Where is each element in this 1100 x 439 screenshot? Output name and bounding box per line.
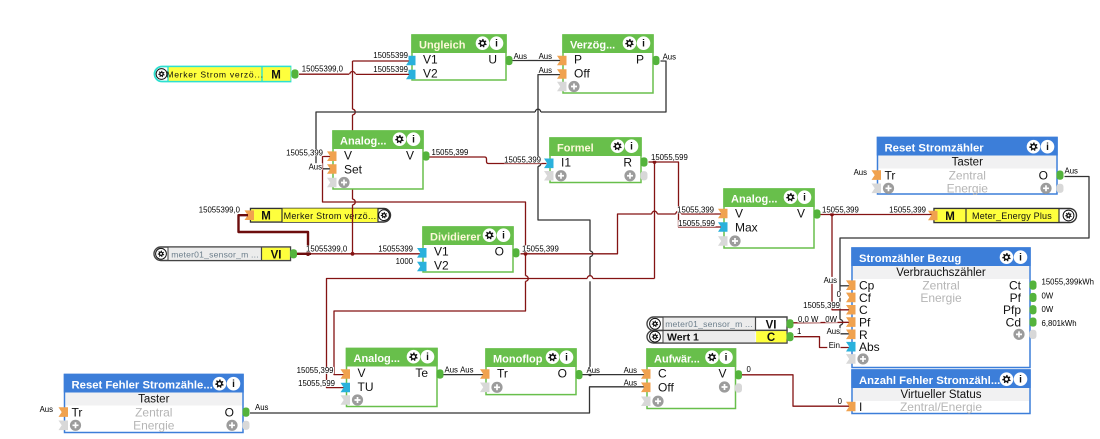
svg-text:Aus: Aus <box>624 366 638 375</box>
wire branch VI to Merker M sink <box>239 215 309 254</box>
value label 0W at Pfp out <box>1041 306 1053 313</box>
wire Verzoegerung P to AnalogSpeicher Set <box>541 61 666 112</box>
svg-text:0: 0 <box>747 365 752 374</box>
value label Aus at Stromzaehler Cp in <box>823 277 837 284</box>
svg-text:i: i <box>642 39 645 50</box>
svg-text:Wert 1: Wert 1 <box>667 332 699 344</box>
svg-text:VI: VI <box>766 319 777 331</box>
svg-text:Meter_Energy Plus: Meter_Energy Plus <box>972 211 1052 221</box>
svg-text:i: i <box>630 142 633 153</box>
value label 15055,399 at Dividierer O out <box>522 245 559 252</box>
svg-text:Tr: Tr <box>497 366 508 380</box>
svg-text:0: 0 <box>837 290 842 299</box>
svg-text:Tr: Tr <box>72 406 83 420</box>
function block Stromzaehler Bezug (Verbrauchszaehler) <box>846 247 1037 367</box>
wire Formel R to Analog Max <box>655 162 722 227</box>
svg-text:Analog...: Analog... <box>340 136 386 148</box>
svg-text:Abs: Abs <box>859 340 880 354</box>
svg-text:i: i <box>426 352 429 363</box>
wire Dividierer O down-left to Analog3 V <box>525 254 527 276</box>
svg-text:15055,399: 15055,399 <box>504 156 541 165</box>
svg-text:Aus: Aus <box>460 366 474 375</box>
memory-flag capsule MerkerStromVerzoegert (source) <box>155 67 291 82</box>
svg-text:0: 0 <box>838 397 843 406</box>
value label 15055,599 at Formel R out <box>651 154 688 161</box>
svg-text:U: U <box>488 52 497 66</box>
value label Aus at Verzoegerung P out <box>662 53 676 60</box>
svg-text:15055399: 15055399 <box>373 65 408 74</box>
svg-text:Monoflop: Monoflop <box>493 354 543 366</box>
svg-text:Dividierer: Dividierer <box>430 232 481 244</box>
svg-text:Max: Max <box>735 220 758 234</box>
svg-text:V: V <box>344 148 352 162</box>
memory-flag capsule MerkerStromVerzoegert (sink) <box>251 209 391 223</box>
svg-text:Verbrauchszähler: Verbrauchszähler <box>896 267 986 279</box>
value label 15055,399 at Analog1 V out <box>431 149 468 156</box>
svg-text:15055399: 15055399 <box>373 51 408 60</box>
svg-text:15055,599: 15055,599 <box>298 379 335 388</box>
svg-text:Cd: Cd <box>1006 315 1021 329</box>
svg-text:6,801kWh: 6,801kWh <box>1042 319 1077 328</box>
svg-text:Zentral: Zentral <box>135 406 172 420</box>
value label Aus at ResetSZ O out <box>1064 167 1078 174</box>
svg-text:i: i <box>803 193 806 204</box>
value label Aus at Verzoegerung Off in <box>538 67 552 74</box>
svg-text:Reset Fehler Stromzähle...: Reset Fehler Stromzähle... <box>72 380 213 392</box>
value label 15055,399 at Meter_Energy in <box>889 206 926 213</box>
capsule C3 output nub <box>290 249 297 258</box>
value label Aus at Monoflop O out <box>586 367 600 374</box>
value label 15055,399 at Analog3 V in <box>297 367 334 374</box>
svg-text:I1: I1 <box>561 155 571 169</box>
wire MerkerM out to Ungleich V2 <box>299 73 349 75</box>
svg-text:M: M <box>271 70 281 82</box>
svg-text:i: i <box>232 379 235 390</box>
svg-text:Aus: Aus <box>539 66 553 75</box>
value label 0 at Aufwaerts V out <box>746 366 751 373</box>
wire Dividierer O right-up to AnalogSpeicher2 V <box>521 214 652 254</box>
svg-text:O: O <box>225 406 234 420</box>
svg-text:Off: Off <box>658 380 674 394</box>
svg-text:0,0 W: 0,0 W <box>798 315 819 324</box>
svg-text:15055,399: 15055,399 <box>432 148 469 157</box>
svg-text:Aus: Aus <box>663 53 677 62</box>
svg-text:Taster: Taster <box>138 394 169 406</box>
svg-text:i: i <box>1046 142 1049 153</box>
svg-text:meter01_sensor_m ...: meter01_sensor_m ... <box>171 249 259 259</box>
svg-text:i: i <box>412 135 415 146</box>
svg-text:C: C <box>767 332 775 344</box>
svg-text:0W: 0W <box>1042 305 1054 314</box>
svg-text:1: 1 <box>797 327 801 336</box>
svg-text:Zentral: Zentral <box>949 169 986 183</box>
svg-text:Set: Set <box>344 162 363 176</box>
svg-text:meter01_sensor_m ...: meter01_sensor_m ... <box>665 319 753 329</box>
wire branch down to Stromzaehler C <box>832 215 850 310</box>
svg-text:Formel: Formel <box>557 143 594 155</box>
svg-text:Taster: Taster <box>952 157 983 169</box>
svg-text:Aus: Aus <box>1065 167 1079 176</box>
value label Ein at Stromzaehler Abs in <box>827 342 840 349</box>
wire AnalogSpeicher2 V to Meter_Energy Plus <box>821 214 932 216</box>
svg-text:M: M <box>945 211 955 223</box>
memory-flag capsule Meter_Energy Plus (sink) <box>934 209 1077 223</box>
svg-text:15055399: 15055399 <box>378 245 413 254</box>
svg-text:1000: 1000 <box>396 257 414 266</box>
value label 15055399 at Ungleich V1 <box>373 52 408 59</box>
wire ResetFehler O to Aufwaertszaehler Off <box>250 387 645 413</box>
value label Aus at Ungleich U out <box>513 53 527 60</box>
virtual-input capsule meter01_sensor (right) <box>647 317 787 331</box>
function block Formel <box>544 137 648 182</box>
junction dots <box>306 252 310 256</box>
svg-text:V1: V1 <box>423 52 438 66</box>
svg-text:i: i <box>725 353 728 364</box>
svg-text:V2: V2 <box>423 66 438 80</box>
svg-text:Stromzähler Bezug: Stromzähler Bezug <box>859 253 961 265</box>
value label 15055,399kWh at Ct out <box>1041 278 1094 285</box>
svg-text:Anzahl Fehler Stromzähl...: Anzahl Fehler Stromzähl... <box>859 375 1000 387</box>
function block Analogspeicher 1 <box>327 130 430 189</box>
svg-text:V: V <box>358 366 366 380</box>
svg-text:Verzög...: Verzög... <box>570 40 615 52</box>
value label 15055,399 at Analog2 V out <box>822 206 859 213</box>
svg-text:Aus: Aus <box>514 52 528 61</box>
capsule C4 input tab <box>928 211 938 221</box>
svg-text:Aus: Aus <box>445 366 459 375</box>
constant capsule Wert 1 <box>647 331 787 344</box>
svg-text:15055,399: 15055,399 <box>889 206 926 215</box>
svg-text:Aus: Aus <box>587 366 601 375</box>
svg-text:V: V <box>735 206 743 220</box>
svg-text:M: M <box>261 211 271 223</box>
virtual-input capsule meter01_sensor (left) <box>154 247 291 261</box>
capsule C6 output nub <box>787 332 794 341</box>
value label Aus at Aufwaerts C in <box>623 367 637 374</box>
svg-text:i: i <box>1019 375 1022 386</box>
function block Analogspeicher 3 <box>341 348 444 407</box>
wire Ungleich U to Verzoegerung P <box>513 60 561 62</box>
function block Analogspeicher 2 <box>718 188 821 248</box>
svg-text:Aus: Aus <box>309 162 323 171</box>
svg-text:i: i <box>1019 253 1022 264</box>
svg-text:Aus: Aus <box>624 378 638 387</box>
svg-text:VI: VI <box>271 249 282 261</box>
svg-text:V1: V1 <box>434 244 449 258</box>
value label 1000 at Dividierer V2 <box>396 258 414 265</box>
svg-text:Energie: Energie <box>947 182 989 196</box>
value label 0W at Pf out <box>1041 292 1053 299</box>
value label Aus at ResetFehler Tr in <box>39 406 53 413</box>
svg-text:15055,599: 15055,599 <box>678 219 715 228</box>
svg-text:I: I <box>859 400 862 414</box>
svg-text:Analog...: Analog... <box>731 194 777 206</box>
svg-text:15055399,0: 15055399,0 <box>199 206 241 215</box>
value label 15055,399 at Formel I1 in <box>504 156 541 163</box>
function block Ungleich <box>406 34 513 80</box>
value label 0W at Stromzaehler Pf in <box>825 316 837 323</box>
svg-text:C: C <box>658 366 667 380</box>
svg-text:O: O <box>558 366 567 380</box>
value label 15055,399 at Stromzaehler C in <box>803 302 840 309</box>
value label Aus at ResetSZ Tr in <box>853 169 867 176</box>
svg-text:Reset Stromzähler: Reset Stromzähler <box>885 143 985 155</box>
value label 0,0 W at VI2 out <box>798 316 821 323</box>
svg-text:i: i <box>565 353 568 364</box>
svg-text:V: V <box>718 366 726 380</box>
svg-text:Tr: Tr <box>885 169 896 183</box>
svg-text:15055,399: 15055,399 <box>522 245 559 254</box>
wire Formel R down-left to Analog TU <box>649 161 655 163</box>
svg-text:Off: Off <box>574 66 590 80</box>
svg-text:15055399,0: 15055399,0 <box>306 245 348 254</box>
value label 1 at Wert1 C out <box>797 328 802 335</box>
value label 15055,599 at Analog3 TU in <box>298 380 335 387</box>
value label 15055399,0 at Merker out <box>302 65 344 72</box>
svg-text:15055399,0: 15055399,0 <box>302 65 344 74</box>
svg-text:15055,399: 15055,399 <box>297 366 334 375</box>
value label Aus at Monoflop Tr in <box>460 366 474 373</box>
value label 15055,399 at Analog2 V in <box>677 206 714 213</box>
wire Wert1 C to Stromzaehler Abs <box>794 337 850 348</box>
wire Monoflop O to Aufwaertszaehler C <box>583 374 645 376</box>
svg-text:V: V <box>797 206 805 220</box>
function block Reset Stromzaehler (Taster) <box>872 137 1064 196</box>
function block Reset Fehler Stromzaehler (Taster) <box>59 374 250 433</box>
value label Aus at Analog3 Te out <box>444 366 458 373</box>
svg-text:Zentral/Energie: Zentral/Energie <box>900 400 982 414</box>
capsule C2 input tab <box>245 210 255 220</box>
value label Aus at Verzoegerung P in <box>538 53 552 60</box>
value label 15055399,0 at Merker2 in <box>199 206 241 213</box>
function block Dividierer <box>417 226 520 272</box>
svg-text:i: i <box>502 231 505 242</box>
wire AnalogSpeicher V to Formel I1 <box>430 157 547 164</box>
svg-text:Aus: Aus <box>824 276 838 285</box>
wire VI2 meter01 out to Stromzaehler Pf <box>794 321 850 324</box>
capsule C5 output nub <box>787 319 794 328</box>
svg-text:O: O <box>1039 169 1048 183</box>
svg-text:Energie: Energie <box>133 419 175 433</box>
svg-text:Ungleich: Ungleich <box>419 40 466 52</box>
svg-text:P: P <box>574 52 582 66</box>
wire Dividierer O up-left to AnalogSpeicher1 V <box>323 157 526 254</box>
value label Aus at Analog1 Set in <box>308 163 322 170</box>
wire branch VI up to Ungleich V1 <box>352 205 354 254</box>
svg-text:15055,399: 15055,399 <box>286 148 323 157</box>
svg-text:V2: V2 <box>434 258 449 272</box>
svg-text:Te: Te <box>415 366 428 380</box>
value label 0 at Stromzaehler Cf in <box>836 291 841 298</box>
value label Aus at ResetFehler O out <box>255 404 269 411</box>
function block Monoflop <box>480 348 583 394</box>
svg-text:Analog...: Analog... <box>354 353 400 365</box>
svg-text:Ein: Ein <box>829 341 840 350</box>
svg-text:O: O <box>495 244 504 258</box>
function block Verzoegerung <box>557 34 660 93</box>
value label Aus at Aufwaerts Off in <box>623 379 637 386</box>
svg-text:R: R <box>623 155 632 169</box>
svg-text:15055,399: 15055,399 <box>803 301 840 310</box>
svg-text:P: P <box>636 52 644 66</box>
svg-text:Merker Strom verzö...: Merker Strom verzö... <box>166 70 263 80</box>
svg-text:Aus: Aus <box>827 327 841 336</box>
svg-text:15055,399: 15055,399 <box>822 206 859 215</box>
svg-text:Energie: Energie <box>920 291 962 305</box>
wire ResetStromzaehler O to Stromzaehler Cp and R <box>840 177 1089 320</box>
value label 15055399,0 at VI out <box>306 245 348 252</box>
svg-text:i: i <box>495 39 498 50</box>
value label 0 at AnzahlFehler I in <box>837 398 842 405</box>
svg-text:TU: TU <box>358 380 374 394</box>
svg-text:Aus: Aus <box>854 168 868 177</box>
svg-text:0W: 0W <box>825 315 837 324</box>
svg-text:Aus: Aus <box>539 52 553 61</box>
wire Analog3 Te to Monoflop Tr <box>444 374 484 376</box>
svg-text:Aus: Aus <box>40 405 54 414</box>
value label 6,801kWh at Cd out <box>1041 320 1076 327</box>
function block Anzahl Fehler Stromzaehler (Virtueller Status) <box>846 369 1031 414</box>
value label 15055,599 at Analog2 Max in <box>678 220 715 227</box>
capsule C1 output nub <box>292 69 299 78</box>
svg-text:0W: 0W <box>1042 291 1054 300</box>
function block Aufwaertszaehler <box>641 348 742 408</box>
wire branch Monoflop O up to Verzoegerung Off <box>589 281 591 374</box>
svg-text:Aus: Aus <box>255 403 269 412</box>
svg-text:15055,399kWh: 15055,399kWh <box>1042 278 1094 287</box>
svg-text:V: V <box>406 148 414 162</box>
value label 15055399 at Ungleich V2 <box>373 66 408 73</box>
svg-text:Aufwär...: Aufwär... <box>654 354 700 366</box>
svg-text:Merker Strom verzö...: Merker Strom verzö... <box>284 211 377 221</box>
value label Aus at Stromzaehler R in <box>826 328 840 335</box>
svg-text:15055,399: 15055,399 <box>677 206 714 215</box>
value label 15055,399 at Analog1 V in <box>286 149 323 156</box>
svg-text:15055,599: 15055,599 <box>651 153 688 162</box>
value label 15055399 at Dividierer V1 in <box>378 245 413 252</box>
wire VI meter01 out to Dividierer V1 <box>297 253 420 255</box>
wire Aufwaertszaehler V to AnzahlFehler I <box>742 375 850 406</box>
